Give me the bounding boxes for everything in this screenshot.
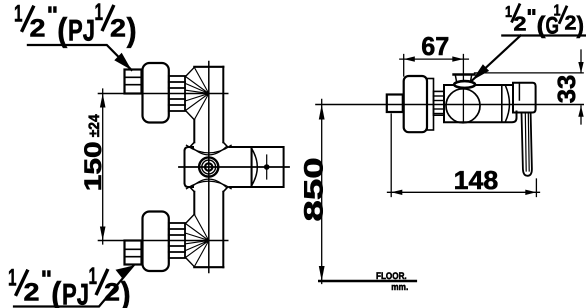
step disk — [427, 79, 434, 131]
hub-handle divider — [251, 147, 253, 187]
arrow up of 150 — [100, 94, 106, 108]
handle pivot dot — [264, 164, 270, 170]
label G arrowhead — [472, 64, 489, 80]
wire: vertical body centerline — [208, 62, 210, 273]
svg-text:): ) — [127, 11, 137, 48]
hex nut bottom (PJ union) — [125, 241, 142, 265]
svg-text:67: 67 — [421, 31, 449, 61]
valve body side view — [444, 85, 517, 122]
svg-text:2: 2 — [565, 13, 577, 35]
svg-text:2: 2 — [110, 15, 126, 43]
threaded nipple side — [434, 91, 445, 115]
body bottom cap — [194, 266, 223, 268]
dimension 67 — [403, 55, 405, 77]
svg-text:1: 1 — [14, 1, 23, 28]
dimension 150 +-24 line — [102, 89, 104, 244]
svg-text:1: 1 — [95, 0, 104, 26]
svg-text:2: 2 — [514, 13, 527, 35]
body column — [193, 120, 195, 143]
wire: bottom inlet centerline — [99, 240, 228, 242]
handle lever — [522, 113, 532, 176]
svg-text:1: 1 — [554, 3, 561, 20]
wire: top inlet centerline — [99, 93, 228, 95]
chamfers into hub — [190, 142, 228, 191]
handle base — [513, 83, 536, 113]
cone transition bottom inlet — [186, 214, 195, 266]
svg-text:(: ( — [51, 275, 61, 308]
cartridge circle side — [446, 89, 480, 123]
end cap seam arc — [505, 86, 509, 122]
wire: side view main centerline — [316, 104, 583, 106]
label PJ top: arrowhead — [114, 53, 131, 70]
arrow down of 150 — [100, 227, 106, 241]
handle seam arc — [252, 149, 258, 186]
flange bottom — [143, 212, 169, 272]
shower outlet fitting G1/2 — [454, 73, 475, 75]
svg-text:mm.: mm. — [391, 282, 408, 293]
svg-text:1: 1 — [89, 263, 98, 290]
hex nut top (PJ union) — [125, 70, 142, 94]
text: label PJ top — [14, 0, 137, 48]
saddle fillet arcs top — [187, 145, 232, 153]
svg-text:(: ( — [537, 12, 546, 39]
text: label PJ bottom — [8, 263, 131, 308]
svg-text:850: 850 — [298, 157, 328, 221]
body top cap — [194, 66, 223, 68]
svg-text:33: 33 — [553, 75, 581, 104]
threaded adapter top — [169, 76, 185, 111]
wall pipe stub — [387, 95, 403, 113]
label G top right: underline + leader — [502, 34, 586, 36]
svg-text:2: 2 — [30, 15, 46, 43]
threaded adapter bottom — [169, 223, 185, 258]
label PJ bottom: leader underline — [14, 266, 134, 307]
text: label G top right — [505, 3, 584, 40]
dimension 148 — [390, 114, 392, 197]
center hub — [185, 147, 252, 187]
floor line — [319, 280, 416, 282]
svg-text:PJ: PJ — [62, 278, 89, 308]
svg-text:FLOOR.: FLOOR. — [376, 271, 407, 282]
svg-text:148: 148 — [454, 165, 499, 195]
dimension 850 — [321, 99, 323, 283]
svg-text:): ) — [577, 12, 585, 39]
body end cap divider — [501, 85, 503, 122]
svg-text:(: ( — [57, 11, 67, 48]
svg-text:150: 150 — [80, 141, 107, 191]
flange top — [143, 63, 169, 123]
wall flange side — [404, 76, 427, 132]
dimension 33 — [475, 72, 584, 74]
svg-text:): ) — [121, 275, 131, 308]
cartridge vertical centerline / 67 ext line — [462, 55, 464, 123]
svg-text:2: 2 — [24, 279, 40, 307]
label PJ bottom: arrowhead — [116, 266, 134, 279]
label PJ top: leader underline — [28, 45, 132, 70]
cone transition top inlet — [186, 67, 195, 119]
handle block — [252, 147, 284, 187]
wire: main horizontal centerline of valve — [179, 166, 289, 168]
svg-text:1: 1 — [505, 4, 512, 21]
handle stem line — [518, 83, 520, 100]
svg-text:2: 2 — [104, 279, 120, 307]
svg-text:PJ: PJ — [68, 14, 95, 47]
saddle fillet arcs bottom — [187, 181, 232, 189]
valve cartridge circles — [199, 157, 218, 176]
svg-text:1: 1 — [8, 265, 17, 292]
svg-text:±24: ±24 — [86, 114, 103, 138]
